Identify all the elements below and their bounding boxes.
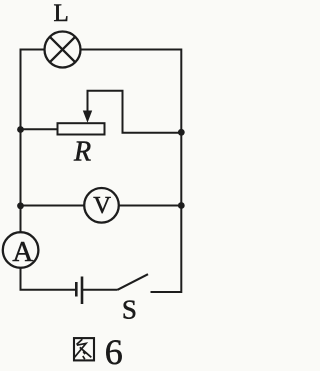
svg-text:6: 6 — [105, 332, 123, 371]
wire voltmeter left — [21, 205, 85, 207]
caption 图 (drawn glyph) — [74, 338, 94, 360]
wire battery to switch — [83, 289, 118, 291]
wire top-right segment — [81, 49, 182, 51]
wire rheostat feed — [21, 128, 58, 130]
resistor R (rheostat body) — [58, 123, 105, 134]
node junction left-rheostat — [17, 126, 24, 133]
wire voltmeter right — [119, 205, 182, 207]
svg-text:V: V — [93, 192, 111, 219]
node junction left-voltmeter — [17, 202, 24, 209]
wire top-left segment — [21, 49, 44, 51]
svg-text:L: L — [54, 0, 69, 27]
svg-text:A: A — [12, 236, 33, 268]
lamp L — [45, 32, 81, 68]
voltmeter V — [84, 188, 119, 223]
node junction right-voltmeter — [178, 202, 185, 209]
wire wiper branch — [87, 91, 182, 133]
wire left rail — [20, 49, 22, 233]
switch S lever — [118, 274, 149, 290]
wire right rail with switch fixed contact — [151, 49, 182, 293]
svg-text:S: S — [122, 295, 137, 325]
svg-text:R: R — [73, 136, 91, 167]
wire left rail lower + bottom left — [20, 268, 76, 290]
node junction right-rheostat — [178, 129, 185, 136]
ammeter A — [3, 232, 39, 268]
wiper arrow — [83, 91, 92, 123]
battery cell — [76, 277, 82, 305]
